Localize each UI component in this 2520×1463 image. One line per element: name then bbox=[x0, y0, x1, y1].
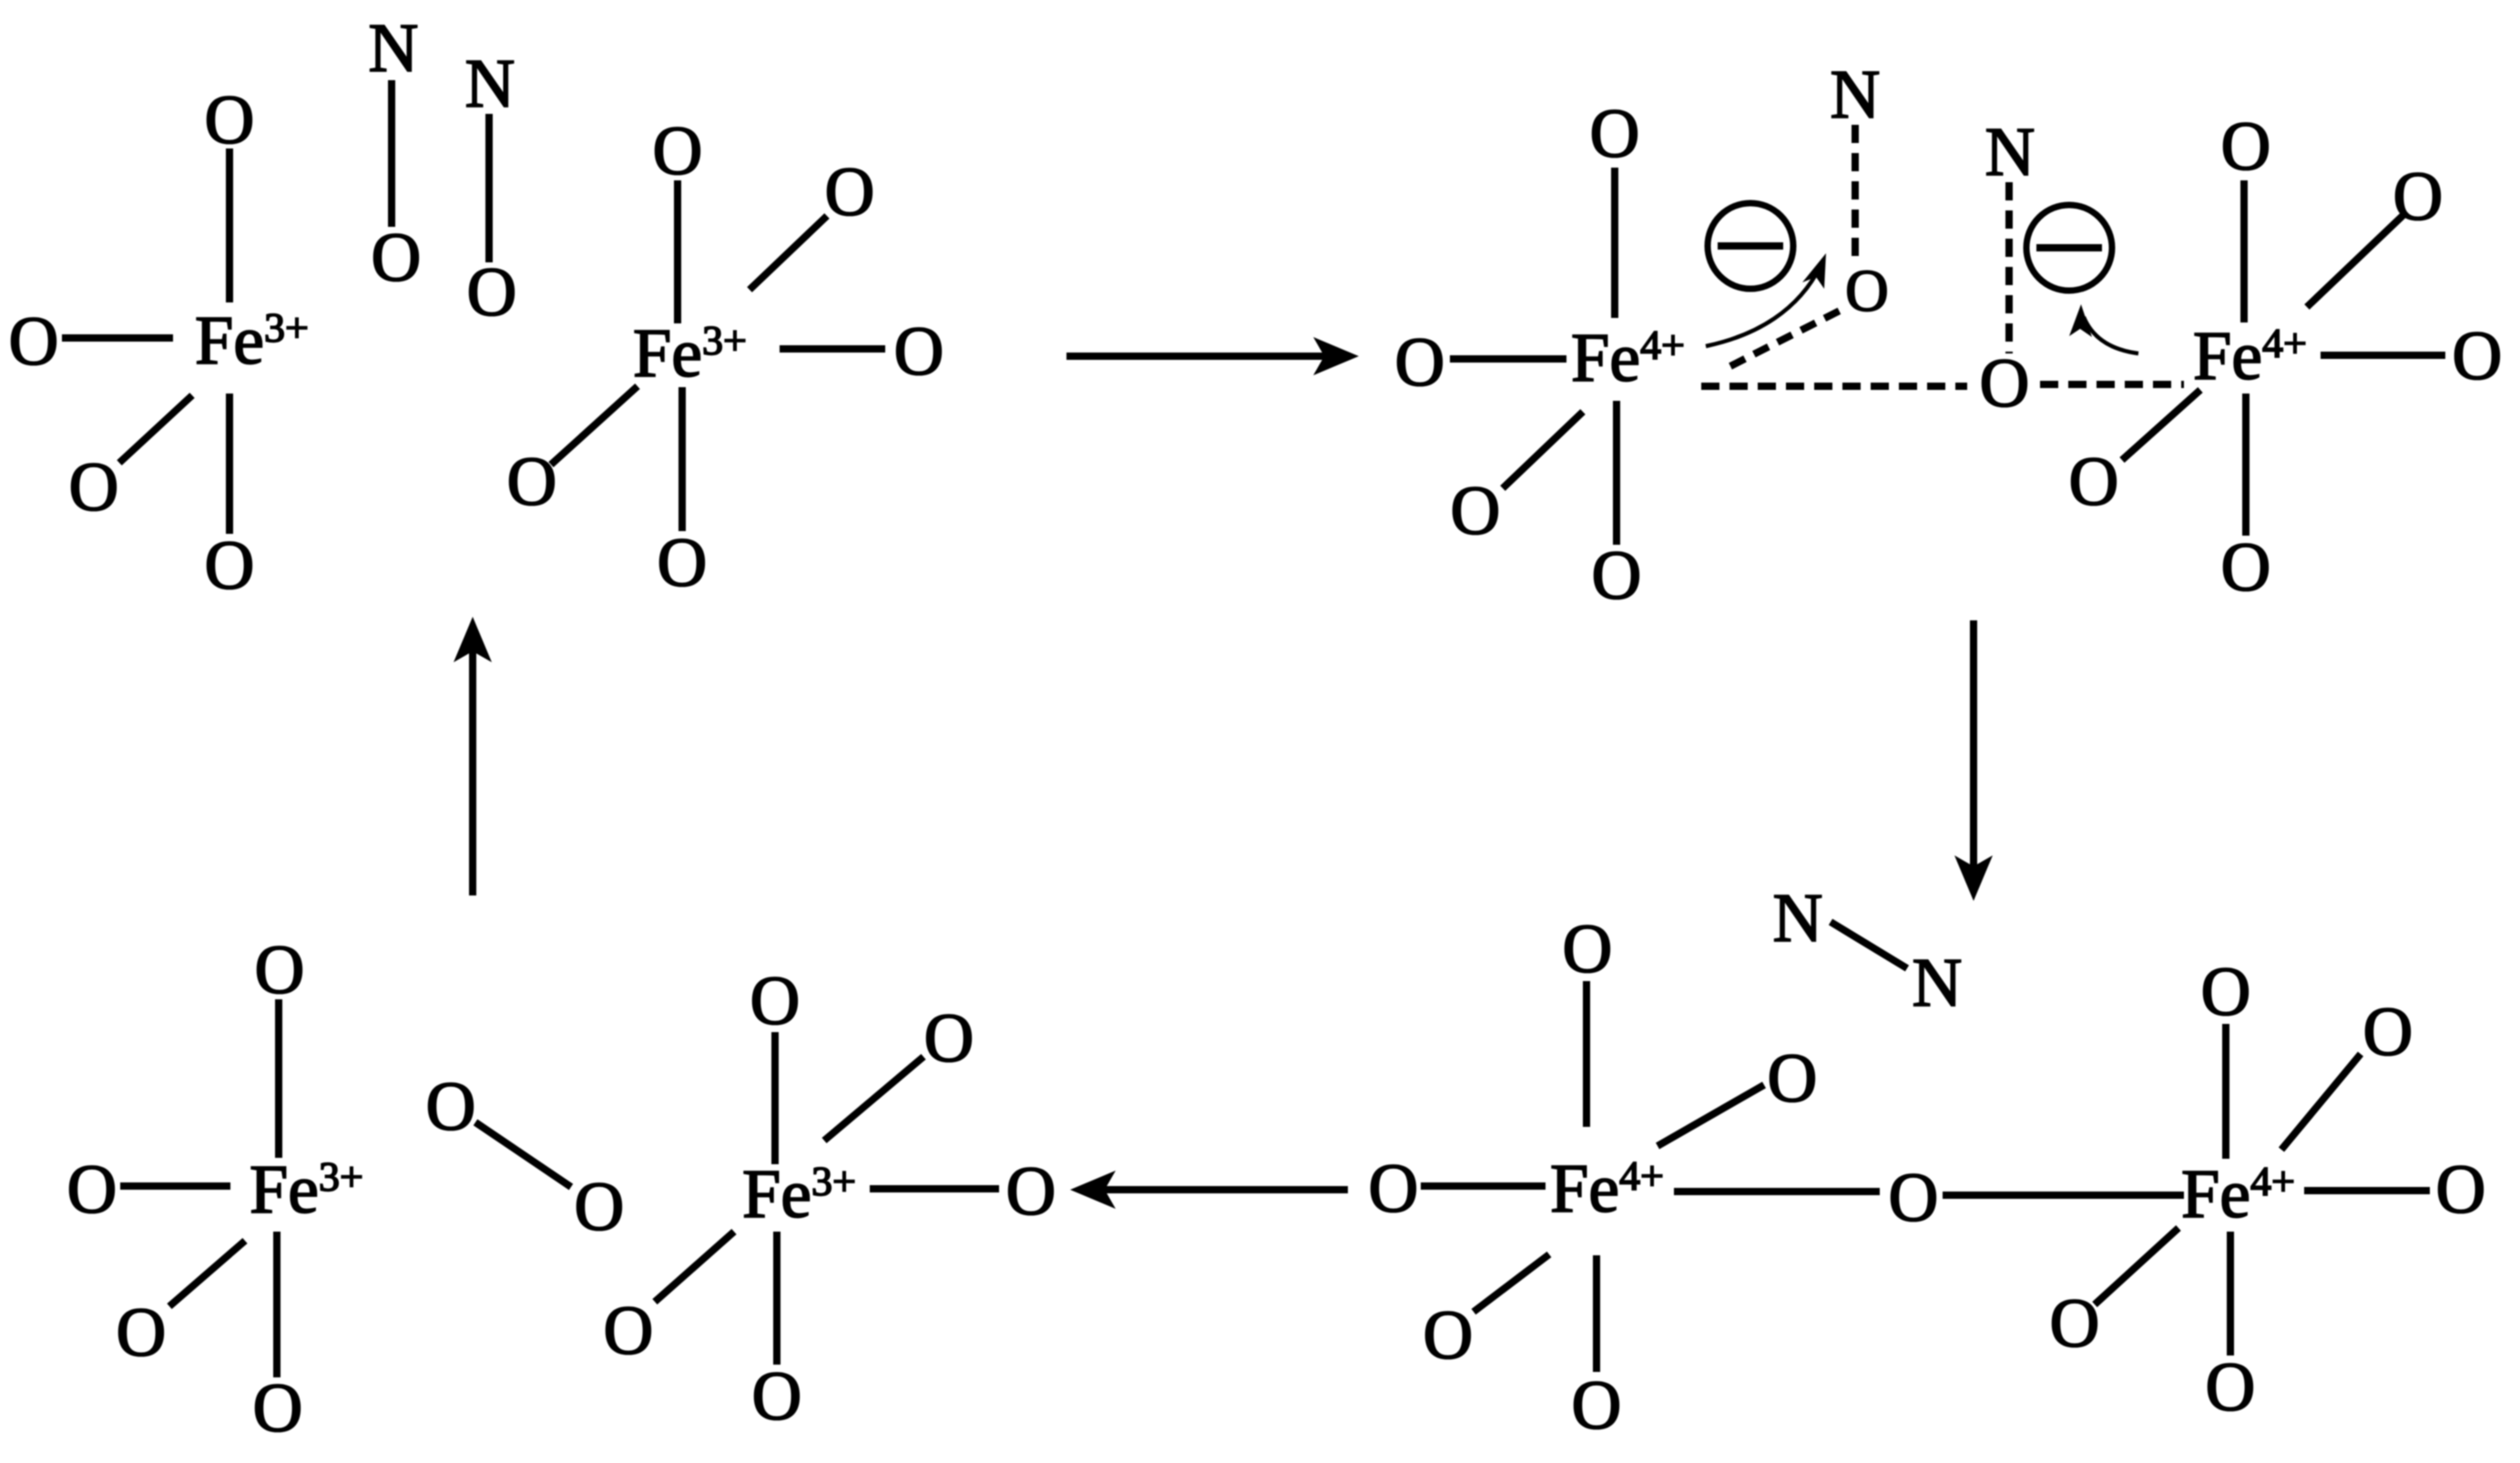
svg-text:O: O bbox=[9, 303, 59, 380]
svg-text:N: N bbox=[369, 10, 419, 87]
svg-text:N: N bbox=[1831, 56, 1881, 133]
svg-text:O: O bbox=[752, 1358, 802, 1435]
svg-text:O: O bbox=[1006, 1153, 1056, 1230]
svg-text:O: O bbox=[1423, 1297, 1474, 1374]
svg-text:O: O bbox=[658, 525, 708, 601]
svg-text:O: O bbox=[575, 1169, 625, 1245]
svg-text:O: O bbox=[253, 1370, 303, 1447]
svg-text:N: N bbox=[1985, 114, 2035, 190]
svg-text:N: N bbox=[1773, 880, 1823, 957]
svg-text:O: O bbox=[1572, 1367, 1622, 1444]
svg-text:O: O bbox=[1845, 258, 1889, 324]
svg-text:O: O bbox=[2050, 1285, 2100, 1362]
svg-text:O: O bbox=[825, 154, 875, 230]
svg-text:O: O bbox=[255, 932, 305, 1008]
svg-text:O: O bbox=[1768, 1040, 1818, 1117]
svg-text:O: O bbox=[1980, 345, 2030, 422]
svg-text:O: O bbox=[1451, 473, 1501, 549]
svg-text:O: O bbox=[653, 113, 703, 189]
svg-text:N: N bbox=[1913, 945, 1963, 1021]
svg-text:O: O bbox=[1592, 537, 1642, 614]
svg-text:O: O bbox=[2363, 994, 2413, 1070]
svg-text:O: O bbox=[426, 1069, 476, 1145]
svg-text:O: O bbox=[924, 1000, 974, 1077]
svg-text:O: O bbox=[205, 82, 255, 159]
svg-text:O: O bbox=[467, 254, 517, 331]
svg-text:O: O bbox=[2221, 108, 2271, 185]
svg-text:O: O bbox=[69, 449, 119, 526]
svg-text:O: O bbox=[67, 1151, 117, 1228]
svg-text:O: O bbox=[2069, 444, 2119, 520]
svg-text:O: O bbox=[2393, 159, 2443, 235]
svg-text:O: O bbox=[1590, 96, 1640, 172]
svg-text:O: O bbox=[2201, 954, 2251, 1030]
svg-text:O: O bbox=[750, 963, 801, 1039]
svg-text:O: O bbox=[604, 1293, 654, 1369]
svg-text:O: O bbox=[372, 220, 422, 296]
svg-text:O: O bbox=[894, 313, 944, 390]
svg-text:O: O bbox=[2221, 529, 2271, 606]
svg-text:O: O bbox=[1889, 1160, 1939, 1236]
svg-text:O: O bbox=[205, 527, 255, 604]
svg-text:N: N bbox=[465, 46, 515, 122]
svg-text:O: O bbox=[1563, 911, 1613, 987]
svg-text:O: O bbox=[2453, 318, 2503, 394]
svg-text:O: O bbox=[1369, 1151, 1419, 1227]
svg-text:O: O bbox=[1395, 324, 1445, 401]
svg-text:O: O bbox=[117, 1294, 167, 1371]
svg-text:O: O bbox=[2206, 1349, 2256, 1426]
svg-text:O: O bbox=[2436, 1151, 2486, 1228]
svg-text:O: O bbox=[507, 444, 557, 520]
